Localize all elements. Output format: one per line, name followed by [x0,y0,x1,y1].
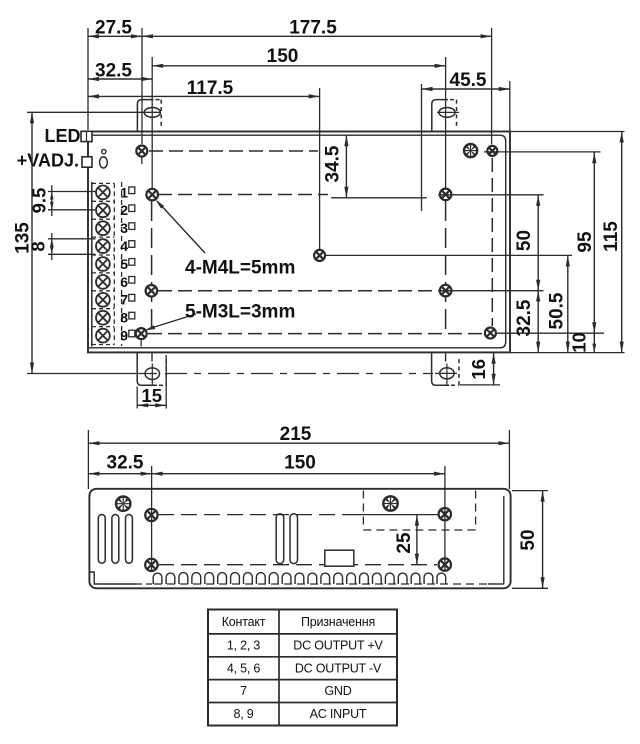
svg-text:50: 50 [514,230,535,251]
dimension 150 top [152,65,445,67]
dimension 117.5 [88,95,320,97]
terminal screw 7 [96,293,110,307]
LED indicator window [81,131,92,141]
M3 hole top-left [136,146,147,157]
side philips screw right [383,496,397,510]
side M4 hole right lower [439,558,451,570]
terminal block cell separators [92,182,114,184]
svg-text:4: 4 [120,238,128,254]
dimension 34.5 [158,194,328,196]
hidden line upper holes [158,514,348,516]
side view bottom-left foot [90,572,136,584]
dimension 27.5 [88,35,142,37]
svg-text:8, 9: 8, 9 [233,707,253,721]
bottom-left chassis tab [137,352,157,385]
terminal block right dashed edge [113,183,115,344]
dimension 95 [593,152,595,333]
terminal block left inner edge [91,182,93,347]
svg-text:Контакт: Контакт [222,615,266,629]
svg-text:34.5: 34.5 [323,145,344,182]
dimension 8 [48,238,96,240]
M4 hole right lower [440,285,452,297]
M3 hole bottom-right [485,328,496,339]
svg-text:1, 2, 3: 1, 2, 3 [227,638,261,652]
leader 5-M3L [148,314,196,329]
svg-text:45.5: 45.5 [450,70,487,91]
hidden centerline col x=445.6 [445,201,447,330]
terminal screw 2 [96,203,110,217]
dimension 10 [593,333,595,352]
V ADJ window [82,157,92,167]
M3 hole top-right [487,146,497,156]
svg-text:DC OUTPUT +V: DC OUTPUT +V [293,638,383,652]
dimension 135 [27,111,161,113]
svg-text:32.5: 32.5 [107,453,144,474]
terminal block outer dashed edge [121,182,123,346]
side M4 hole right upper [439,508,451,520]
hidden centerline col x=492.3 [491,158,493,326]
svg-text:GND: GND [324,684,351,698]
terminal screw 8 [96,311,110,325]
side view case outline [89,489,510,589]
svg-text:115: 115 [601,221,622,252]
svg-text:25: 25 [394,532,415,554]
potentiometer slot [100,157,108,168]
hidden centerline row y=290.5 [158,290,438,292]
side view inner right edge [503,496,505,584]
hidden centerline row y=151 [149,150,318,152]
hidden centerline row y=332.7 [148,333,483,335]
leader 4-M4L [158,202,206,254]
dimension 25 [416,515,418,565]
terminal screw 6 [96,275,110,289]
dimension 50.5 [567,255,569,352]
dimension 45.5 [422,88,510,90]
M3 hole center [314,250,325,261]
M4 hole right upper [440,189,452,201]
svg-text:Призначення: Призначення [301,615,375,629]
case inner lip line [88,135,506,348]
side M4 hole left upper [145,509,157,521]
dimension 32.5 side [151,466,153,571]
dimension 177.5 [142,35,492,37]
pin assignment table [208,610,397,726]
side M4 hole left lower [145,559,157,571]
svg-text:215: 215 [280,424,312,445]
bottom-right chassis tab [432,352,449,385]
top-left tab slot [144,108,160,118]
svg-text:4, 5, 6: 4, 5, 6 [227,661,261,675]
svg-text:7: 7 [240,684,247,698]
svg-text:3: 3 [120,220,128,236]
middle vent slots [276,514,284,564]
svg-text:27.5: 27.5 [95,17,132,38]
svg-text:6: 6 [120,274,128,290]
bottom-right tab slot [440,368,454,379]
svg-text:117.5: 117.5 [187,78,234,99]
svg-text:16: 16 [468,359,489,380]
terminal screw 5 [96,257,110,271]
svg-text:7: 7 [120,292,128,308]
svg-text:10: 10 [569,332,590,353]
bottom-left tab slot [145,368,159,380]
svg-text:5-M3L=3mm: 5-M3L=3mm [185,302,295,323]
hidden component box [362,491,364,531]
hole stub lines [141,158,143,165]
svg-text:50: 50 [518,529,539,550]
extension lines top [87,28,89,130]
side view fin base hidden line [154,583,488,585]
terminal screw 1 [96,186,110,200]
M4 hole left upper [146,189,158,201]
bottom slot centerline chain [165,373,433,375]
svg-text:177.5: 177.5 [289,17,337,38]
svg-text:5: 5 [120,256,128,272]
philips screw top-right [464,144,477,157]
svg-text:4-M4L=5mm: 4-M4L=5mm [185,258,295,279]
M3 hole bottom-left [136,328,147,339]
svg-text:95: 95 [575,231,596,253]
dimension 150 side [444,466,446,570]
top-left chassis tab [137,100,153,131]
side vent slots [98,515,105,564]
terminal screw 3 [96,221,110,235]
svg-text:2: 2 [120,202,128,218]
switch rectangle [325,550,354,566]
dimension 32.5 right [537,291,539,353]
svg-text:150: 150 [284,453,316,474]
dimension 16 [493,353,495,385]
svg-text:32.5: 32.5 [95,60,132,81]
dimension 9.5 [48,191,96,193]
M4 hole left lower [146,285,158,297]
svg-text:1: 1 [120,184,128,200]
dimension 32.5 top [88,78,152,80]
svg-text:+VADJ.: +VADJ. [17,151,79,171]
dimension 115 [621,132,623,353]
svg-text:8: 8 [120,310,128,326]
svg-text:8: 8 [28,241,49,251]
heatsink fins [153,573,446,584]
right extension lines [511,131,625,133]
terminal screw 9 [96,329,110,343]
svg-text:9.5: 9.5 [29,188,50,214]
svg-text:32.5: 32.5 [514,299,535,336]
terminal screw 4 [96,239,110,253]
svg-text:LED: LED [45,126,81,146]
dimension 50 side [512,490,548,492]
hidden line lower holes [158,564,437,566]
potentiometer dot [102,149,106,153]
svg-text:AC INPUT: AC INPUT [310,707,367,721]
svg-text:15: 15 [141,385,162,406]
side philips screw left [116,497,130,511]
svg-text:DC OUTPUT -V: DC OUTPUT -V [295,661,382,675]
top-right tab slot [439,108,455,118]
svg-text:150: 150 [267,46,299,67]
hidden centerline col x=152.2 [151,201,153,330]
top-right chassis tab [432,100,448,131]
svg-text:9: 9 [120,328,128,344]
dimension 50 right [537,195,539,291]
svg-text:50.5: 50.5 [547,292,568,329]
dimension 15 [136,387,138,409]
top view: PSU case outline [88,132,510,353]
dimension 215 [87,430,89,489]
